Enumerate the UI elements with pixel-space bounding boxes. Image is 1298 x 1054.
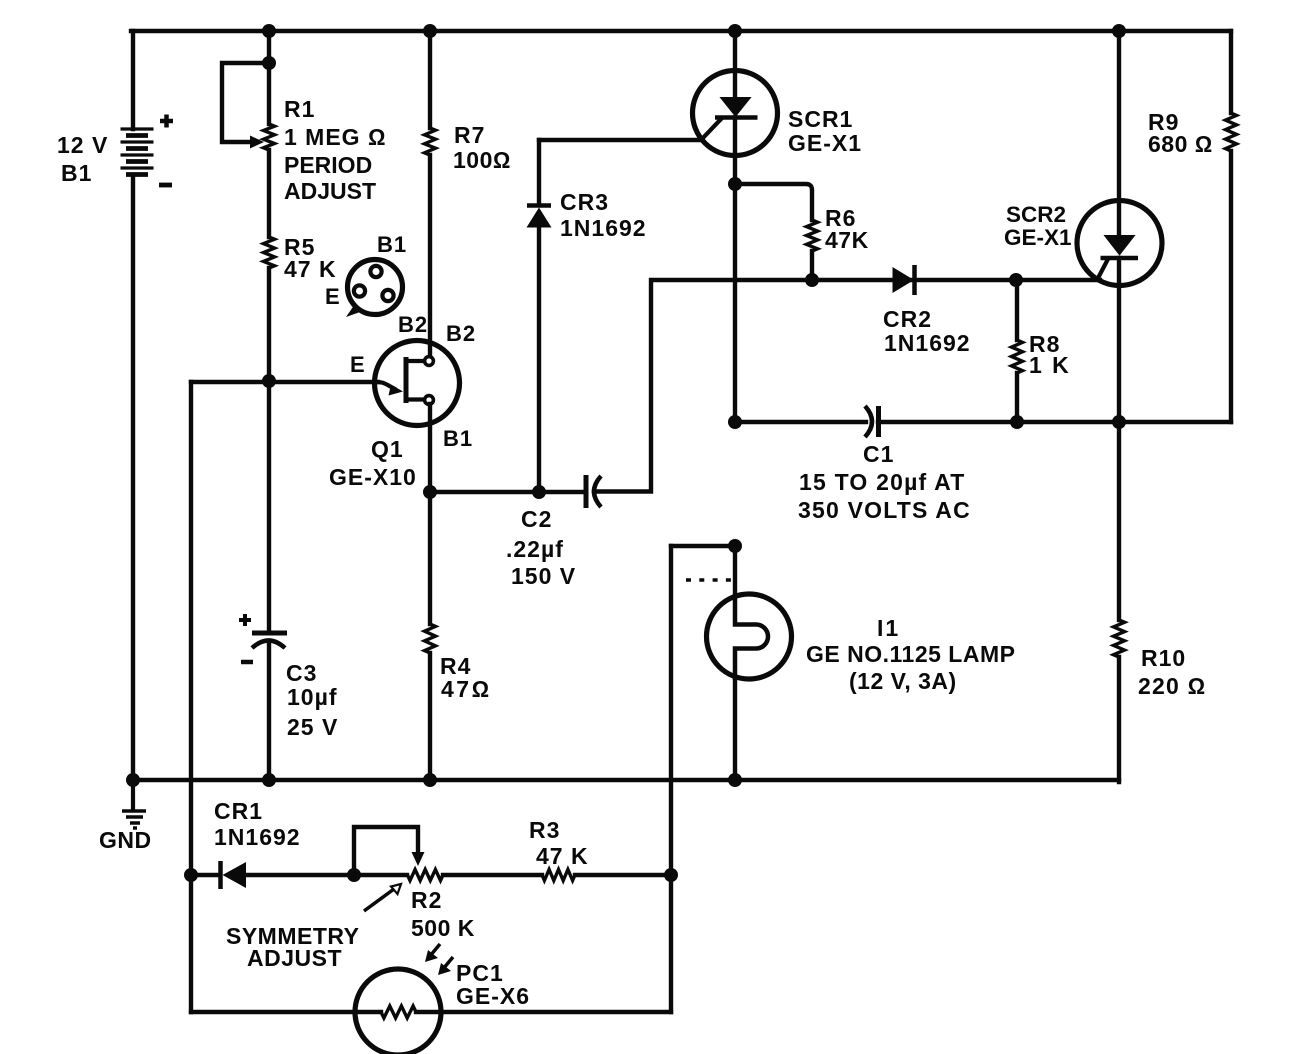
wire CR3 anode vertical (537, 140, 541, 205)
wire R9 bottom (1229, 151, 1233, 422)
ground (122, 780, 146, 828)
wire SCR2 cathode down (1117, 258, 1121, 422)
svg-text:10µf: 10µf (287, 684, 338, 710)
svg-text:1 K: 1 K (1029, 352, 1071, 378)
diode CR1 bar (218, 861, 223, 889)
resistor R9 (1226, 113, 1237, 151)
diode CR3 bar (527, 203, 551, 208)
wire top rail (131, 29, 1231, 33)
svg-text:GE-X1: GE-X1 (1004, 225, 1072, 250)
svg-text:CR2: CR2 (883, 306, 932, 332)
svg-text:PERIOD: PERIOD (284, 152, 372, 178)
battery B1 plus sign (160, 115, 173, 128)
svg-text:25 V: 25 V (287, 714, 338, 740)
wire R1 to R5 (267, 150, 271, 237)
B1 socket pin B2 (382, 290, 393, 301)
SCR2 gate lead (1097, 259, 1108, 280)
photocell PC1 element (381, 1006, 416, 1018)
svg-text:1 MEG Ω: 1 MEG Ω (284, 124, 387, 150)
svg-text:B1: B1 (377, 232, 407, 257)
svg-text:E: E (350, 352, 365, 377)
wire emitter (191, 380, 378, 384)
resistor R5 (264, 237, 275, 268)
diode CR3 triangle (527, 208, 552, 228)
wire SCR1 cathode down (733, 118, 737, 423)
capacitor C3 (252, 633, 287, 648)
thyristor SCR2 outline (1077, 201, 1162, 286)
wire left loop vertical (189, 382, 193, 1012)
battery B1 minus sign (159, 183, 172, 188)
capacitor C2 (586, 475, 601, 508)
svg-text:CR1: CR1 (214, 798, 263, 824)
svg-text:47 K: 47 K (284, 256, 337, 282)
svg-text:220 Ω: 220 Ω (1138, 673, 1206, 699)
B1 socket pin B1 (370, 266, 381, 277)
svg-text:C1: C1 (863, 441, 894, 467)
svg-text:I1: I1 (877, 615, 900, 641)
junction CR3 / C2 wire (532, 485, 546, 499)
svg-text:1N1692: 1N1692 (560, 215, 647, 241)
junction bottom rail / C3 (262, 773, 276, 787)
wire R8 bottom (1015, 373, 1019, 422)
svg-text:GE-X6: GE-X6 (456, 983, 530, 1009)
resistor R1 (264, 124, 275, 150)
wire R4 to bottom rail (428, 653, 432, 780)
PC1 light arrow 2 (438, 957, 453, 975)
wire SCR2 anode (1117, 31, 1121, 236)
junction R3 right (664, 868, 678, 882)
SCR1 gate lead (700, 118, 722, 141)
resistor R6 (807, 220, 818, 251)
svg-text:C2: C2 (521, 506, 552, 532)
svg-text:B2: B2 (446, 321, 476, 346)
wire SCR1 line to lamp (733, 546, 737, 596)
Q1 B1 pin (425, 396, 434, 405)
battery B1 (121, 129, 154, 175)
svg-text:R3: R3 (529, 817, 560, 843)
svg-text:47 K: 47 K (536, 843, 589, 869)
svg-text:SCR1: SCR1 (788, 106, 853, 132)
wire C2 node to R4 (428, 492, 432, 624)
svg-text:1N1692: 1N1692 (214, 824, 301, 850)
R2 wiper arrow (412, 852, 425, 866)
svg-text:500 K: 500 K (411, 915, 475, 941)
wire Q1 B1 to C2 node (428, 404, 432, 492)
diode CR2 bar (912, 265, 917, 295)
resistor R7 (425, 128, 436, 155)
Q1 base bar (404, 357, 409, 403)
wire R7 top (428, 31, 432, 128)
resistor R4 (425, 624, 436, 653)
junction C1 wire / SCR1 line (728, 415, 742, 429)
wire R2 to R3 (443, 873, 542, 877)
lamp I1 outline (707, 594, 792, 679)
Q1 emitter lead (376, 382, 396, 390)
svg-text:GE-X10: GE-X10 (329, 464, 417, 490)
wire R2 wiper loop (354, 827, 418, 875)
Q1 B2 lead (406, 359, 424, 363)
junction C1 wire / R8 (1010, 415, 1024, 429)
svg-text:B1: B1 (61, 160, 92, 186)
junction C2 wire left (423, 485, 437, 499)
svg-text:R10: R10 (1141, 645, 1186, 671)
junction SCR1 cathode / R6 (728, 177, 742, 191)
wire CR3 to C2 node (537, 228, 541, 493)
svg-text:47K: 47K (825, 227, 869, 253)
svg-text:.22µf: .22µf (506, 536, 564, 562)
SCR1 triangle (722, 98, 750, 116)
Q1 emitter arrow (389, 385, 404, 396)
wire R3 right (575, 873, 671, 877)
svg-text:Q1: Q1 (371, 436, 404, 462)
wire C2 right (594, 280, 1100, 492)
svg-text:GE-X1: GE-X1 (788, 130, 862, 156)
wire CR1 left (191, 873, 220, 877)
diode CR2 triangle (893, 267, 915, 293)
photocell PC1 outline (355, 969, 441, 1054)
SCR2 cathode bar (1101, 256, 1139, 261)
junction bottom rail / battery (126, 773, 140, 787)
wire R1 branch top (267, 31, 271, 124)
wire R5 to C3 (267, 268, 271, 633)
junction R1 wiper loop (262, 56, 276, 70)
Q1 B1 lead (406, 397, 424, 401)
wire CR1 to R2 (246, 873, 407, 877)
wire bottom loop bottom (191, 1010, 671, 1014)
wire bottom loop right (669, 546, 673, 1012)
wire lamp to bottom rail (733, 679, 737, 780)
R1 wiper arrow (250, 136, 264, 149)
wire R9 top (1229, 31, 1233, 113)
resistor R8 (1012, 340, 1023, 373)
wire R6 bottom (810, 251, 814, 280)
PC1 light arrow 1 (425, 944, 440, 962)
svg-text:ADJUST: ADJUST (284, 178, 376, 204)
svg-text:15 TO 20µf AT: 15 TO 20µf AT (799, 469, 965, 495)
C3 plus sign (239, 614, 251, 626)
junction top rail / SCR1 (728, 24, 742, 38)
resistor R10 (1114, 620, 1125, 657)
svg-text:B2: B2 (398, 312, 428, 337)
svg-text:R1: R1 (284, 96, 315, 122)
C3 minus sign (241, 660, 253, 665)
wire R6 top (735, 184, 812, 220)
wire bottom rail (133, 778, 1119, 782)
junction CR2 cathode / R8 (1009, 273, 1023, 287)
junction C1 wire / SCR2 (1112, 415, 1126, 429)
B1 socket pin E (354, 285, 365, 296)
junction R2 loop left (347, 868, 361, 882)
junction emitter wire (262, 374, 276, 388)
wire R10 top (1117, 422, 1121, 620)
svg-text:12 V: 12 V (57, 132, 108, 158)
resistor R3 (542, 870, 575, 881)
junction bottom rail / lamp (728, 773, 742, 787)
wire R7 to Q1 B2 (428, 155, 432, 357)
svg-text:680 Ω: 680 Ω (1148, 131, 1213, 157)
wire SCR1 anode (733, 31, 737, 98)
wire lamp tap (671, 544, 735, 548)
svg-text:1N1692: 1N1692 (884, 330, 971, 356)
symmetry adjust arrow (364, 884, 401, 911)
svg-text:GND: GND (99, 827, 152, 853)
junction top rail / SCR2 (1112, 24, 1126, 38)
junction top rail / R1 (262, 24, 276, 38)
B1 socket tab (346, 304, 360, 317)
wire R8 top (1015, 280, 1019, 340)
wire battery bottom (131, 176, 135, 780)
junction lamp tap / SCR1 line (728, 539, 742, 553)
svg-text:150 V: 150 V (511, 563, 576, 589)
junction top rail / R7 (423, 24, 437, 38)
light coupling dashes (686, 578, 731, 582)
svg-text:GE NO.1125 LAMP: GE NO.1125 LAMP (806, 641, 1015, 667)
transistor Q1 outline (375, 341, 460, 426)
junction CR1 left (184, 868, 198, 882)
Q1 B2 pin (425, 357, 434, 366)
capacitor C1 (865, 406, 879, 437)
wire C1 left (735, 420, 866, 424)
junction R6 bottom (805, 273, 819, 287)
diode CR1 triangle (223, 862, 247, 888)
svg-text:350 VOLTS AC: 350 VOLTS AC (798, 497, 971, 523)
svg-text:E: E (325, 284, 340, 309)
junction bottom rail / R4 (423, 773, 437, 787)
wire battery top (131, 31, 135, 129)
wire C1 right (878, 420, 1231, 424)
wire C2 left (430, 490, 586, 494)
svg-text:(12 V, 3A): (12 V, 3A) (849, 668, 957, 694)
wire SCR1 gate horizontal (539, 138, 701, 142)
resistor R2 (408, 870, 444, 881)
wire C3 to bottom rail (267, 641, 271, 780)
SCR2 triangle (1106, 236, 1134, 254)
svg-text:R7: R7 (454, 122, 485, 148)
wire R10 bottom (1117, 657, 1121, 782)
lamp I1 filament (735, 594, 768, 680)
transistor B1 socket outline (348, 260, 403, 315)
SCR1 cathode bar (715, 115, 758, 120)
svg-text:B1: B1 (443, 426, 473, 451)
svg-text:100Ω: 100Ω (453, 147, 511, 173)
svg-text:SCR2: SCR2 (1006, 202, 1066, 227)
svg-text:ADJUST: ADJUST (247, 945, 342, 971)
svg-text:47Ω: 47Ω (441, 676, 492, 702)
svg-text:CR3: CR3 (560, 189, 609, 215)
svg-text:R2: R2 (411, 887, 442, 913)
thyristor SCR1 outline (693, 71, 778, 156)
svg-text:C3: C3 (286, 660, 317, 686)
wire R1 wiper loop (222, 63, 269, 142)
